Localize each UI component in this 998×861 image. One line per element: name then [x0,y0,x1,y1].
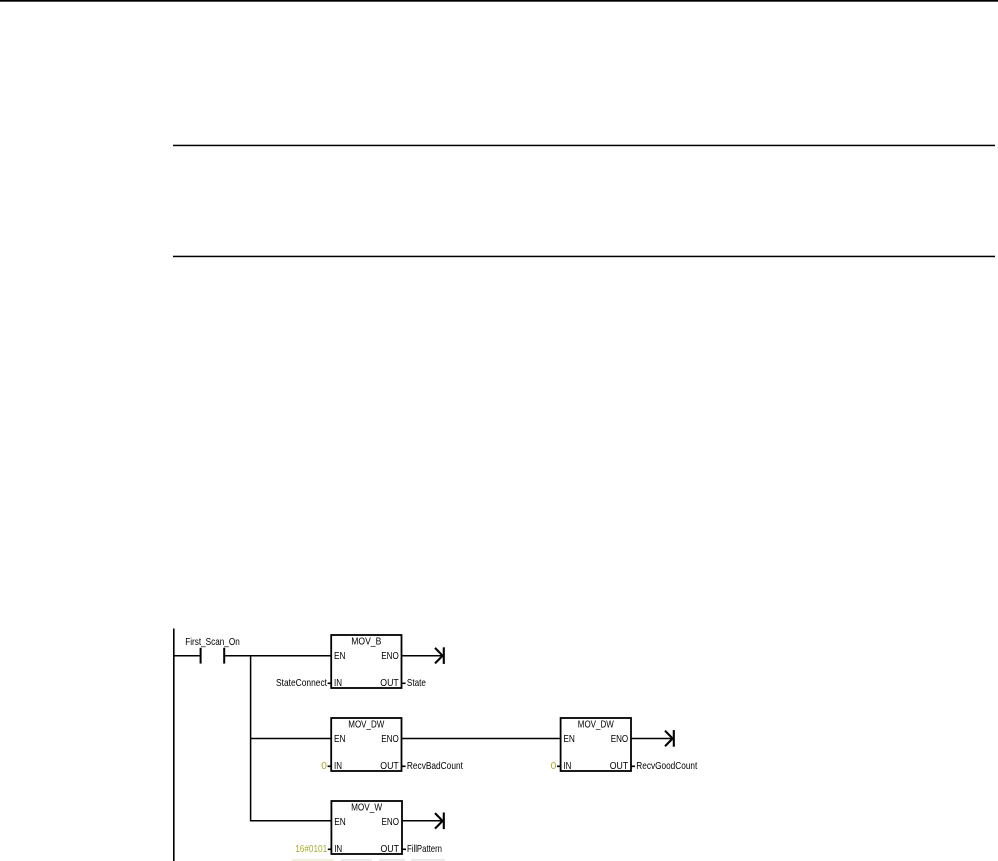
svg-text:MOV_B: MOV_B [351,637,381,648]
svg-text:ENO: ENO [611,734,629,745]
svg-text:EN: EN [334,734,346,745]
svg-text:IN: IN [334,678,342,689]
svg-text:OUT: OUT [610,761,629,772]
svg-text:EN: EN [563,734,575,745]
svg-text:ENO: ENO [381,651,399,662]
svg-text:EN: EN [334,817,346,828]
svg-text:EN: EN [334,651,346,662]
svg-text:OUT: OUT [380,761,399,772]
svg-text:First_Scan_On: First_Scan_On [185,637,240,648]
svg-text:RecvBadCount: RecvBadCount [407,761,463,772]
svg-text:MOV_DW: MOV_DW [348,720,384,731]
svg-text:IN: IN [563,761,571,772]
svg-text:OUT: OUT [381,844,400,855]
svg-text:MOV_DW: MOV_DW [578,720,614,731]
svg-text:IN: IN [334,761,342,772]
svg-text:State: State [407,678,426,689]
svg-text:StateConnect: StateConnect [276,678,327,689]
svg-text:RecvGoodCount: RecvGoodCount [636,761,697,772]
svg-text:MOV_W: MOV_W [351,803,382,814]
svg-text:IN: IN [334,844,342,855]
svg-text:0: 0 [551,761,557,772]
svg-text:16#0101: 16#0101 [295,844,327,855]
svg-text:OUT: OUT [380,678,399,689]
svg-text:ENO: ENO [381,734,399,745]
svg-text:FillPattern: FillPattern [407,844,442,855]
svg-text:0: 0 [321,761,327,772]
svg-text:ENO: ENO [382,817,400,828]
